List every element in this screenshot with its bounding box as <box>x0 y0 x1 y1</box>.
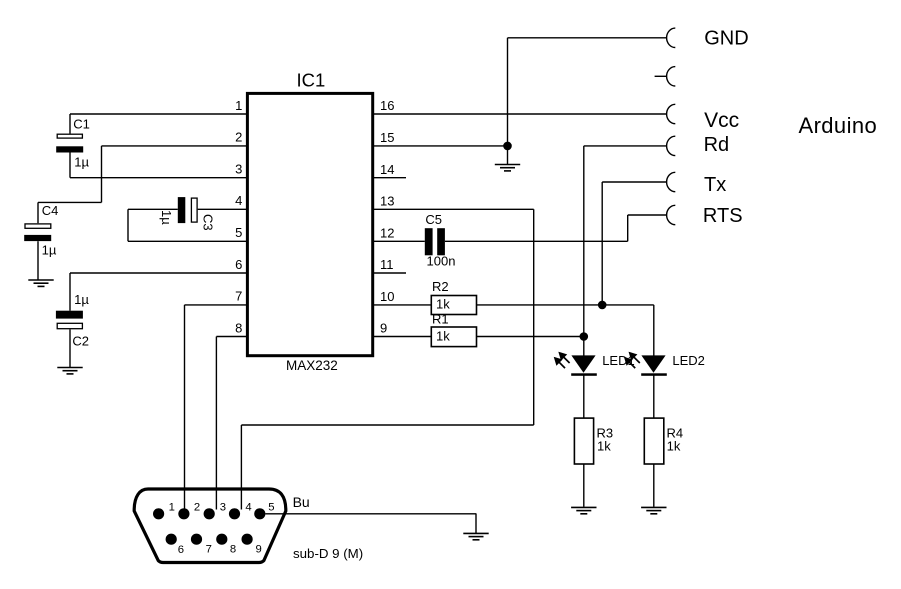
svg-text:1µ: 1µ <box>159 210 174 225</box>
svg-text:5: 5 <box>235 225 242 240</box>
svg-text:9: 9 <box>380 321 387 336</box>
svg-text:9: 9 <box>256 543 262 555</box>
svg-text:R2: R2 <box>432 279 449 294</box>
svg-text:Arduino: Arduino <box>799 113 878 138</box>
svg-text:1µ: 1µ <box>74 292 89 307</box>
svg-text:GND: GND <box>704 27 748 49</box>
svg-text:8: 8 <box>235 320 242 335</box>
svg-text:2: 2 <box>235 130 242 145</box>
svg-text:C4: C4 <box>42 203 59 218</box>
svg-text:8: 8 <box>230 543 236 555</box>
svg-text:1k: 1k <box>667 438 681 453</box>
svg-text:1µ: 1µ <box>42 242 57 257</box>
svg-text:1k: 1k <box>436 296 450 311</box>
svg-text:1µ: 1µ <box>74 154 89 169</box>
svg-text:100n: 100n <box>427 253 456 268</box>
svg-text:16: 16 <box>380 98 394 113</box>
svg-text:5: 5 <box>268 501 274 513</box>
svg-text:14: 14 <box>380 162 394 177</box>
svg-text:Bu: Bu <box>293 494 310 510</box>
svg-text:13: 13 <box>380 194 394 209</box>
svg-text:4: 4 <box>235 193 242 208</box>
svg-text:1k: 1k <box>436 329 450 344</box>
svg-text:6: 6 <box>178 544 184 556</box>
svg-text:4: 4 <box>245 502 251 514</box>
svg-text:LED2: LED2 <box>672 353 705 368</box>
svg-text:C1: C1 <box>73 116 90 131</box>
svg-text:sub-D 9 (M): sub-D 9 (M) <box>293 546 363 561</box>
svg-text:7: 7 <box>235 289 242 304</box>
svg-text:6: 6 <box>235 257 242 272</box>
svg-text:MAX232: MAX232 <box>286 358 338 373</box>
svg-text:7: 7 <box>206 543 212 555</box>
svg-text:RTS: RTS <box>703 205 743 227</box>
svg-text:1k: 1k <box>597 438 611 453</box>
svg-text:10: 10 <box>380 289 394 304</box>
svg-text:R1: R1 <box>432 312 449 327</box>
svg-text:C5: C5 <box>425 212 442 227</box>
svg-text:Vcc: Vcc <box>704 109 739 132</box>
svg-text:3: 3 <box>235 162 242 177</box>
svg-text:12: 12 <box>380 226 394 241</box>
svg-text:IC1: IC1 <box>297 69 326 90</box>
svg-text:1: 1 <box>169 502 175 514</box>
svg-text:C2: C2 <box>72 333 89 348</box>
svg-text:15: 15 <box>380 130 394 145</box>
svg-text:2: 2 <box>194 502 200 514</box>
svg-text:1: 1 <box>235 98 242 113</box>
svg-text:LED1: LED1 <box>602 353 635 368</box>
svg-text:11: 11 <box>380 257 394 272</box>
svg-text:3: 3 <box>220 501 226 513</box>
svg-text:C3: C3 <box>201 214 216 231</box>
svg-text:Tx: Tx <box>704 174 726 196</box>
svg-text:Rd: Rd <box>704 134 730 156</box>
